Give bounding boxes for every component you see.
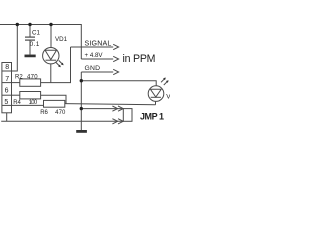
svg-text:0.1: 0.1 <box>30 41 40 48</box>
svg-text:8: 8 <box>5 64 9 71</box>
svg-text:100: 100 <box>29 100 38 106</box>
svg-text:470: 470 <box>27 75 38 81</box>
svg-text:SIGNAL: SIGNAL <box>85 39 112 47</box>
svg-text:R6: R6 <box>40 110 48 116</box>
svg-text:470: 470 <box>55 110 66 116</box>
svg-text:R2: R2 <box>15 75 23 81</box>
svg-text:6: 6 <box>5 87 9 94</box>
svg-text:R4: R4 <box>13 100 21 106</box>
svg-text:+ 4.8V: + 4.8V <box>85 52 104 59</box>
svg-text:in PPM: in PPM <box>123 53 156 65</box>
svg-text:7: 7 <box>5 76 9 83</box>
svg-text:JMP 1: JMP 1 <box>140 111 164 121</box>
svg-text:GND: GND <box>85 65 101 72</box>
svg-text:C1: C1 <box>32 30 40 37</box>
svg-text:V: V <box>166 94 170 101</box>
svg-text:5: 5 <box>4 99 8 106</box>
svg-text:VD1: VD1 <box>55 36 68 43</box>
